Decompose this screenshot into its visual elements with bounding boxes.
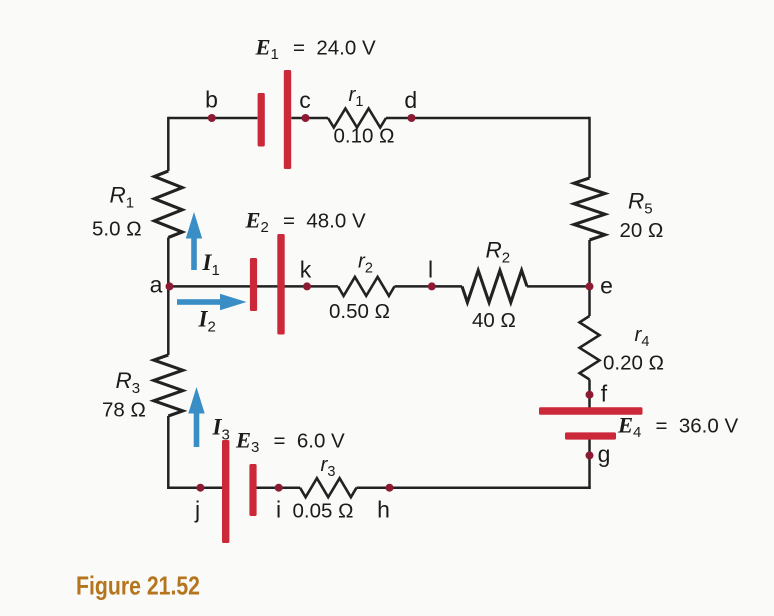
label node letter f — [601, 381, 608, 407]
resistor r3 0.05 ohm — [300, 478, 357, 497]
label node letter i — [276, 496, 281, 522]
label value 0.20 ohm — [603, 352, 664, 375]
label R5 — [628, 189, 653, 218]
wire top r1-to-right-corner — [386, 117, 590, 120]
svg-text:j: j — [194, 496, 200, 522]
svg-text:l: l — [428, 257, 433, 283]
svg-text:78 Ω: 78 Ω — [102, 399, 146, 422]
wire top c-to-r1 — [291, 117, 328, 120]
caption Figure 21.52 — [76, 571, 200, 601]
svg-text:40 Ω: 40 Ω — [472, 309, 516, 332]
svg-text:= 6.0 V: = 6.0 V — [274, 430, 346, 453]
svg-text:e: e — [600, 273, 613, 299]
wire left vertical top (corner to R1) — [167, 117, 170, 171]
wire left vertical bottom (R3 to corner j) — [167, 416, 170, 489]
svg-text:a: a — [150, 272, 163, 298]
label EMF E1 = 24.0 V — [255, 35, 376, 64]
label node letter b — [205, 87, 218, 113]
label EMF E2 = 48.0 V — [245, 207, 366, 236]
svg-text:0.50 Ω: 0.50 Ω — [329, 300, 390, 323]
svg-text:r1: r1 — [349, 83, 364, 110]
wire top b-c-d segment left — [168, 117, 257, 120]
svg-text:R1: R1 — [110, 183, 135, 212]
label r3 — [321, 453, 336, 480]
resistor R2 40 ohm — [462, 270, 527, 302]
node j — [196, 484, 204, 492]
svg-text:b: b — [205, 87, 218, 113]
label r1 — [349, 83, 364, 110]
label node letter a — [150, 272, 163, 298]
current arrow I2 — [177, 294, 247, 310]
resistor r1 0.10 ohm — [328, 109, 386, 128]
wire middle E2 to r2 — [284, 285, 338, 288]
wire middle r2 to R2 — [395, 285, 463, 288]
label r4 — [635, 323, 650, 350]
node b — [208, 114, 216, 122]
node h — [386, 484, 394, 492]
battery E4 negative plate (short bar) — [565, 432, 616, 439]
svg-text:I3: I3 — [212, 415, 230, 444]
label I1 — [202, 250, 220, 279]
battery E2 positive plate (long bar) — [277, 234, 284, 335]
svg-text:r3: r3 — [321, 453, 336, 480]
label EMF E4 = 36.0 V — [617, 413, 738, 442]
node a — [166, 282, 174, 290]
svg-text:g: g — [598, 441, 611, 467]
label node letter d — [404, 87, 417, 113]
label node letter l — [428, 257, 433, 283]
svg-text:0.10 Ω: 0.10 Ω — [334, 124, 395, 147]
label node letter h — [377, 496, 390, 522]
svg-text:I1: I1 — [202, 250, 220, 279]
wire bottom i segment — [256, 486, 300, 489]
resistor R5 20 ohm — [574, 178, 605, 240]
svg-text:h: h — [377, 496, 390, 522]
battery E4 positive plate (long bar) — [539, 407, 643, 414]
svg-text:0.20 Ω: 0.20 Ω — [603, 352, 664, 375]
node i — [275, 484, 283, 492]
svg-text:R3: R3 — [116, 368, 141, 397]
battery E1 positive plate (long bar) — [284, 70, 291, 169]
label node letter k — [300, 257, 312, 283]
svg-text:f: f — [601, 381, 608, 407]
svg-text:R5: R5 — [628, 189, 653, 218]
label value 40 ohm — [472, 309, 516, 332]
svg-text:Figure 21.52: Figure 21.52 — [76, 571, 200, 601]
label value 0.10 ohm — [334, 124, 395, 147]
svg-text:r2: r2 — [358, 250, 373, 277]
label value 0.05 ohm — [293, 499, 354, 522]
svg-text:5.0 Ω: 5.0 Ω — [92, 218, 142, 241]
svg-text:d: d — [404, 87, 417, 113]
label R3 — [116, 368, 141, 397]
label node letter g — [598, 441, 611, 467]
label EMF E3 = 6.0 V — [235, 428, 345, 457]
label node letter c — [299, 87, 311, 113]
svg-text:R2: R2 — [486, 238, 511, 267]
svg-text:E1: E1 — [255, 35, 279, 64]
wire left vertical mid (R1 to R3) — [167, 238, 170, 356]
wire middle R2 to e — [527, 285, 590, 288]
node l — [428, 282, 436, 290]
wire right vertical R5-e-r4 — [588, 240, 591, 316]
label node letter e — [600, 273, 613, 299]
svg-text:c: c — [299, 87, 311, 113]
resistor r2 0.50 ohm — [338, 277, 395, 296]
label I3 — [212, 415, 230, 444]
label value 78 ohm — [102, 399, 146, 422]
wire right vertical E4 to bottom corner — [588, 439, 591, 489]
node d — [408, 114, 416, 122]
label I2 — [198, 307, 216, 336]
battery E2 negative plate (short bar) — [250, 258, 257, 311]
battery E3 positive plate (long bar) — [222, 440, 229, 543]
wire middle a to E2 — [168, 285, 250, 288]
label value 0.50 ohm — [329, 300, 390, 323]
label r2 — [358, 250, 373, 277]
resistor R1 5.0 ohm — [154, 171, 182, 238]
wire bottom j segment — [167, 486, 222, 489]
wire middle behind battery E2 — [250, 285, 284, 288]
svg-text:E2: E2 — [245, 207, 269, 236]
svg-text:= 36.0 V: = 36.0 V — [656, 415, 739, 438]
node c — [302, 114, 310, 122]
wire right vertical r4 to E4 — [588, 380, 591, 409]
svg-text:r4: r4 — [635, 323, 650, 350]
resistor r4 0.20 ohm — [580, 316, 600, 380]
label R2 — [486, 238, 511, 267]
svg-text:E3: E3 — [235, 428, 259, 457]
label R1 — [110, 183, 135, 212]
svg-text:20 Ω: 20 Ω — [620, 219, 664, 242]
resistor R3 78 ohm — [154, 355, 183, 416]
node e — [586, 282, 594, 290]
svg-text:i: i — [276, 496, 281, 522]
svg-text:E4: E4 — [617, 413, 641, 442]
wire bottom h to right corner — [357, 486, 591, 489]
svg-text:= 48.0 V: = 48.0 V — [283, 209, 366, 232]
label value 5.0 ohm — [92, 218, 142, 241]
svg-text:I2: I2 — [198, 307, 216, 336]
current arrow I3 — [188, 387, 204, 447]
current arrow I1 — [186, 212, 202, 270]
label node letter j — [194, 496, 200, 522]
node f — [586, 391, 594, 399]
svg-text:= 24.0 V: = 24.0 V — [293, 37, 376, 60]
svg-text:k: k — [300, 257, 312, 283]
battery E3 negative plate (short bar) — [249, 464, 256, 516]
label value 20 ohm — [620, 219, 664, 242]
wire right vertical top (corner to R5) — [588, 117, 591, 178]
svg-text:0.05 Ω: 0.05 Ω — [293, 499, 354, 522]
battery E1 negative plate (short bar) — [258, 93, 265, 147]
node k — [303, 282, 311, 290]
node g — [586, 451, 594, 459]
